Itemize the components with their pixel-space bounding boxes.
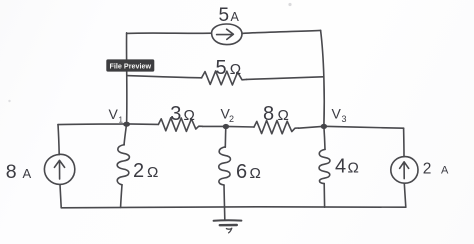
- svg-text:3: 3: [170, 103, 181, 125]
- arrow of 2A source: [400, 162, 409, 179]
- resistor R3 3ohm zigzag: [158, 118, 202, 132]
- node V3 junction dot: [321, 124, 327, 129]
- arrow of 8A source: [54, 160, 64, 179]
- label 5-ohm: [216, 57, 242, 79]
- wire right branch vertical lower (2A to bottom rail): [404, 183, 406, 207]
- label 4-ohm: [335, 156, 359, 178]
- wire 5-ohm branch right segment: [247, 77, 323, 80]
- svg-text:V: V: [109, 106, 119, 122]
- label 8-ohm: [263, 103, 289, 125]
- wire left branch vertical lower (8A to bottom rail): [60, 185, 61, 208]
- node V1 junction dot: [123, 122, 130, 127]
- label 3-ohm: [170, 103, 195, 125]
- svg-text:2: 2: [229, 114, 234, 124]
- resistor R8 8ohm zigzag: [254, 120, 298, 133]
- svg-text:8: 8: [263, 103, 274, 125]
- svg-text:5: 5: [216, 57, 227, 79]
- wire 4-ohm branch bottom stub: [323, 184, 325, 208]
- current source I3 2A: [391, 157, 418, 184]
- wire V2 to 8-ohm: [226, 125, 254, 128]
- label 6-ohm: [236, 161, 261, 183]
- wire right vertical of top loop down to node V3: [321, 30, 325, 125]
- wire top right segment: [242, 30, 321, 33]
- wire bottom rail: [61, 206, 406, 209]
- resistor R5 5ohm zigzag: [202, 71, 247, 85]
- wire 2-ohm branch top stub: [124, 124, 127, 145]
- faint paper speck left: [8, 100, 10, 102]
- label 8A: [6, 161, 32, 183]
- label 2-ohm: [133, 160, 158, 182]
- current source I2 8A: [44, 154, 74, 184]
- svg-text:1: 1: [119, 116, 124, 125]
- svg-text:Ω: Ω: [348, 160, 359, 177]
- svg-text:File Preview: File Preview: [110, 61, 152, 70]
- resistor R2 2ohm vertical zigzag: [117, 145, 129, 185]
- svg-text:Ω: Ω: [147, 164, 158, 181]
- wire 4-ohm branch top stub: [324, 126, 325, 149]
- wire 3-ohm to V2: [202, 125, 225, 127]
- wire main node rail: left corner to V1: [58, 123, 127, 126]
- current source I1 5A: [212, 24, 242, 45]
- svg-text:4: 4: [335, 156, 346, 178]
- ground squiggle: [226, 228, 231, 233]
- wire top-left vertical (node V1 up to top loop): [126, 33, 128, 124]
- resistor R4 4ohm vertical zigzag: [319, 149, 330, 183]
- arrow of 5A source: [217, 29, 234, 39]
- svg-text:8: 8: [6, 161, 17, 183]
- wire V1 to 3-ohm: [127, 123, 159, 126]
- wire 8-ohm to V3: [298, 126, 324, 128]
- wire 6-ohm branch through bottom rail to ground: [223, 185, 226, 219]
- svg-text:Ω: Ω: [250, 165, 261, 182]
- label V1: [109, 106, 124, 125]
- svg-text:5: 5: [219, 5, 230, 26]
- svg-text:A: A: [231, 10, 240, 24]
- svg-text:Ω: Ω: [184, 107, 195, 124]
- label 5A: [219, 5, 240, 26]
- svg-text:3: 3: [342, 114, 347, 124]
- wire left branch vertical upper (corner to 8A source): [58, 125, 59, 155]
- wire V3 to right branch corner: [324, 126, 404, 128]
- ground bar 2: [220, 224, 237, 227]
- label 2A: [423, 160, 449, 177]
- tooltip File Preview: [106, 59, 154, 71]
- svg-text:6: 6: [236, 161, 247, 183]
- resistor R6 6ohm vertical zigzag: [219, 147, 231, 185]
- faint paper speck top: [288, 3, 291, 6]
- ground bar 1: [214, 219, 242, 221]
- label V2: [221, 106, 235, 125]
- wire top left segment to 5A source: [127, 32, 212, 34]
- svg-text:V: V: [332, 106, 342, 122]
- svg-text:2: 2: [423, 160, 432, 177]
- wire 5-ohm branch left segment: [127, 76, 201, 78]
- label V3: [332, 106, 347, 125]
- svg-text:2: 2: [133, 160, 144, 182]
- svg-text:A: A: [441, 164, 449, 176]
- wire 6-ohm branch top stub: [224, 126, 227, 147]
- svg-text:Ω: Ω: [278, 107, 289, 124]
- wire right branch vertical upper (corner to 2A source): [403, 128, 405, 157]
- node V2 junction dot: [223, 124, 229, 129]
- svg-text:Ω: Ω: [230, 61, 241, 78]
- svg-text:A: A: [23, 166, 32, 181]
- wire 2-ohm branch bottom stub: [121, 185, 122, 208]
